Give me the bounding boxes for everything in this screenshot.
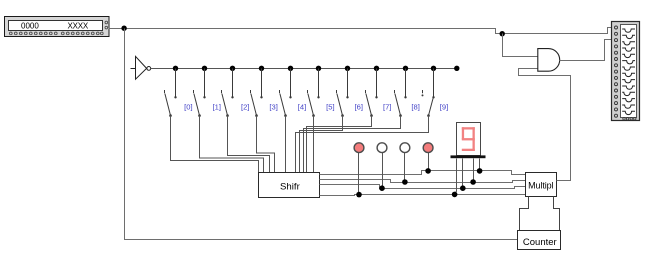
svg-text:[5]: [5] xyxy=(326,102,334,111)
node: top-left junction xyxy=(121,26,126,31)
node: bus tap 7 xyxy=(374,66,379,71)
wire: Multipl feedback to AND gate input xyxy=(519,69,571,181)
switch SW7 xyxy=(366,69,378,117)
wire: SW2 to Shifr input xyxy=(228,116,270,173)
node: pin1 junction xyxy=(452,192,458,198)
node: bus tap 1 xyxy=(202,66,207,71)
svg-text:[7]: [7] xyxy=(383,102,391,111)
svg-text:[1]: [1] xyxy=(213,102,221,111)
AND gate U4 xyxy=(538,49,560,72)
wire: bus line C Shifr to Multipl input 3 xyxy=(320,185,526,189)
node: bus end xyxy=(454,66,459,71)
node: bus tap 6 xyxy=(345,66,350,71)
node: LED1 junction xyxy=(356,192,362,198)
wire: 7seg pin 1 xyxy=(454,159,456,194)
node: LED2 junction xyxy=(379,185,385,191)
switch SW6 xyxy=(337,69,349,117)
wire: left rail down to Counter xyxy=(125,29,518,240)
seven-segment display DS1 xyxy=(457,123,481,156)
switch SW4 xyxy=(280,69,292,117)
wire: Multipl to Counter connector right xyxy=(554,197,560,231)
node: bus tap 3 xyxy=(259,66,264,71)
svg-text:[3]: [3] xyxy=(269,102,277,111)
node: LED3 junction xyxy=(402,179,408,185)
svg-text:[9]: [9] xyxy=(440,102,448,111)
switch SW1 xyxy=(194,69,206,117)
node: pin4 junction xyxy=(477,168,483,174)
svg-text:Shifr: Shifr xyxy=(280,181,301,192)
encoder box U2 Shifr xyxy=(259,173,320,198)
wire: SW1 to Shifr input xyxy=(200,116,264,173)
switch SW8 xyxy=(395,69,407,117)
wire: SW8 to Shifr input xyxy=(304,116,401,173)
node: bus tap 0 xyxy=(173,66,178,71)
node: bus tap 4 xyxy=(288,66,293,71)
wire: 7seg pin 4 xyxy=(479,159,481,171)
switch SW2 xyxy=(222,69,234,117)
switch SW9 xyxy=(422,69,435,117)
node: bus tap 8 xyxy=(403,66,408,71)
multiplexer box U3 Multipl xyxy=(526,173,557,197)
svg-text:0000: 0000 xyxy=(21,21,39,30)
node: LED4 junction xyxy=(425,168,431,174)
svg-text:Counter: Counter xyxy=(523,237,557,248)
node: bus tap 9 xyxy=(431,66,436,71)
wire: SW4 to Shifr input xyxy=(285,116,287,173)
switch SW0 xyxy=(165,69,177,117)
wire: inverter output bus xyxy=(151,68,457,70)
7seg base bar xyxy=(451,155,486,158)
wire: 7seg pin 3 xyxy=(473,159,475,183)
wire: top junction to AND gate input xyxy=(503,34,538,57)
node: bus tap 2 xyxy=(230,66,235,71)
svg-text:Multipl: Multipl xyxy=(528,180,553,190)
switch SW5 xyxy=(308,69,320,117)
LED D2 off xyxy=(377,143,387,189)
node: bus tap 5 xyxy=(316,66,321,71)
svg-text:[0]: [0] xyxy=(184,102,192,111)
switch SW3 xyxy=(251,69,263,117)
wire: SW9 to Shifr input xyxy=(296,116,429,173)
wire: SW6 to Shifr input xyxy=(300,116,343,173)
svg-text:[6]: [6] xyxy=(355,102,363,111)
wire: bus line D Shifr to Multipl input 4 xyxy=(320,195,526,196)
svg-text:XXXX: XXXX xyxy=(68,21,89,30)
node: pin3 junction xyxy=(470,179,476,185)
wire: bus line B Shifr to Multipl input 2 xyxy=(320,180,526,183)
wire: Multipl to Counter connector left xyxy=(520,197,529,231)
wire: top bus from keyboard to resistor network xyxy=(109,28,612,34)
wire: SW0 to Shifr input xyxy=(171,116,259,173)
inverter U1 xyxy=(131,56,151,79)
counter box U5 Counter xyxy=(518,231,561,250)
wire: SW5 to Shifr input xyxy=(313,116,315,173)
node: pin2 junction xyxy=(460,185,466,191)
LED D3 off xyxy=(400,143,410,183)
wire: 7seg pin 2 xyxy=(462,159,464,189)
LED D1 lit xyxy=(354,143,364,195)
wire: AND output to resistor network xyxy=(560,40,612,61)
node: top-right junction xyxy=(500,31,505,36)
svg-text:[8]: [8] xyxy=(411,102,419,111)
keyboard input component KB1 xyxy=(5,17,110,37)
wire: SW3 to Shifr input xyxy=(257,116,275,173)
svg-text:[2]: [2] xyxy=(241,102,249,111)
wire: bus line A Shifr to Multipl input 1 xyxy=(320,171,526,175)
wire: SW7 to Shifr input xyxy=(307,116,372,173)
svg-text:[4]: [4] xyxy=(298,102,306,111)
resistor network RN1 xyxy=(612,22,640,121)
LED D4 lit xyxy=(423,143,433,171)
